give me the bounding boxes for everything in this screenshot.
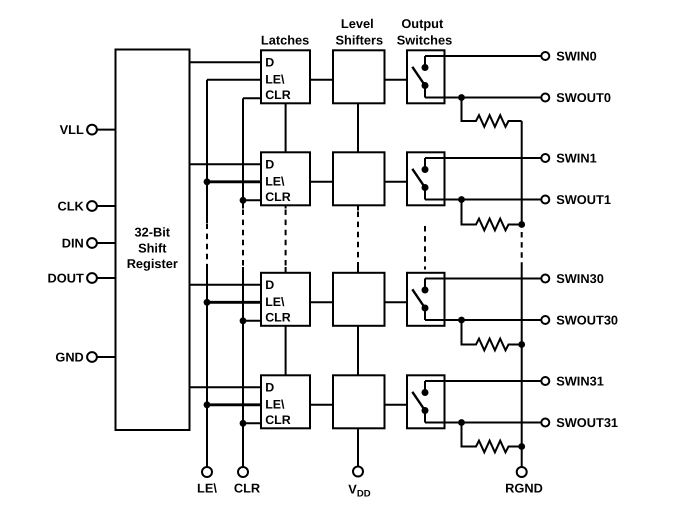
- svg-text:DIN: DIN: [62, 235, 84, 250]
- svg-text:Register: Register: [127, 256, 178, 271]
- svg-text:CLK: CLK: [57, 198, 84, 213]
- svg-text:D: D: [265, 381, 274, 395]
- svg-text:Shifters: Shifters: [335, 33, 383, 48]
- svg-text:LE\: LE\: [265, 295, 285, 309]
- svg-text:RGND: RGND: [505, 481, 543, 496]
- svg-text:Output: Output: [401, 16, 444, 31]
- svg-text:CLR: CLR: [265, 88, 291, 102]
- svg-text:SWOUT30: SWOUT30: [556, 312, 618, 327]
- svg-text:LE\: LE\: [197, 481, 217, 496]
- svg-text:Switches: Switches: [397, 33, 452, 48]
- svg-text:D: D: [265, 278, 274, 292]
- svg-text:CLR: CLR: [234, 481, 260, 496]
- svg-text:SWOUT0: SWOUT0: [556, 90, 611, 105]
- svg-text:LE\: LE\: [265, 174, 285, 188]
- svg-text:LE\: LE\: [265, 397, 285, 411]
- svg-text:GND: GND: [55, 349, 83, 364]
- svg-text:D: D: [265, 56, 274, 70]
- svg-text:SWIN0: SWIN0: [556, 48, 597, 63]
- svg-text:Level: Level: [341, 16, 374, 31]
- svg-text:32-Bit: 32-Bit: [135, 225, 171, 240]
- svg-text:SWIN30: SWIN30: [556, 271, 604, 286]
- svg-text:CLR: CLR: [265, 413, 291, 427]
- svg-text:SWOUT31: SWOUT31: [556, 415, 618, 430]
- svg-text:CLR: CLR: [265, 190, 291, 204]
- svg-text:Shift: Shift: [138, 240, 167, 255]
- svg-text:CLR: CLR: [265, 311, 291, 325]
- svg-text:SWIN31: SWIN31: [556, 373, 604, 388]
- svg-text:SWOUT1: SWOUT1: [556, 192, 611, 207]
- svg-text:SWIN1: SWIN1: [556, 150, 597, 165]
- svg-text:VLL: VLL: [60, 122, 84, 137]
- svg-text:LE\: LE\: [265, 72, 285, 86]
- svg-text:Latches: Latches: [261, 33, 309, 48]
- svg-text:D: D: [265, 158, 274, 172]
- svg-text:DOUT: DOUT: [48, 270, 84, 285]
